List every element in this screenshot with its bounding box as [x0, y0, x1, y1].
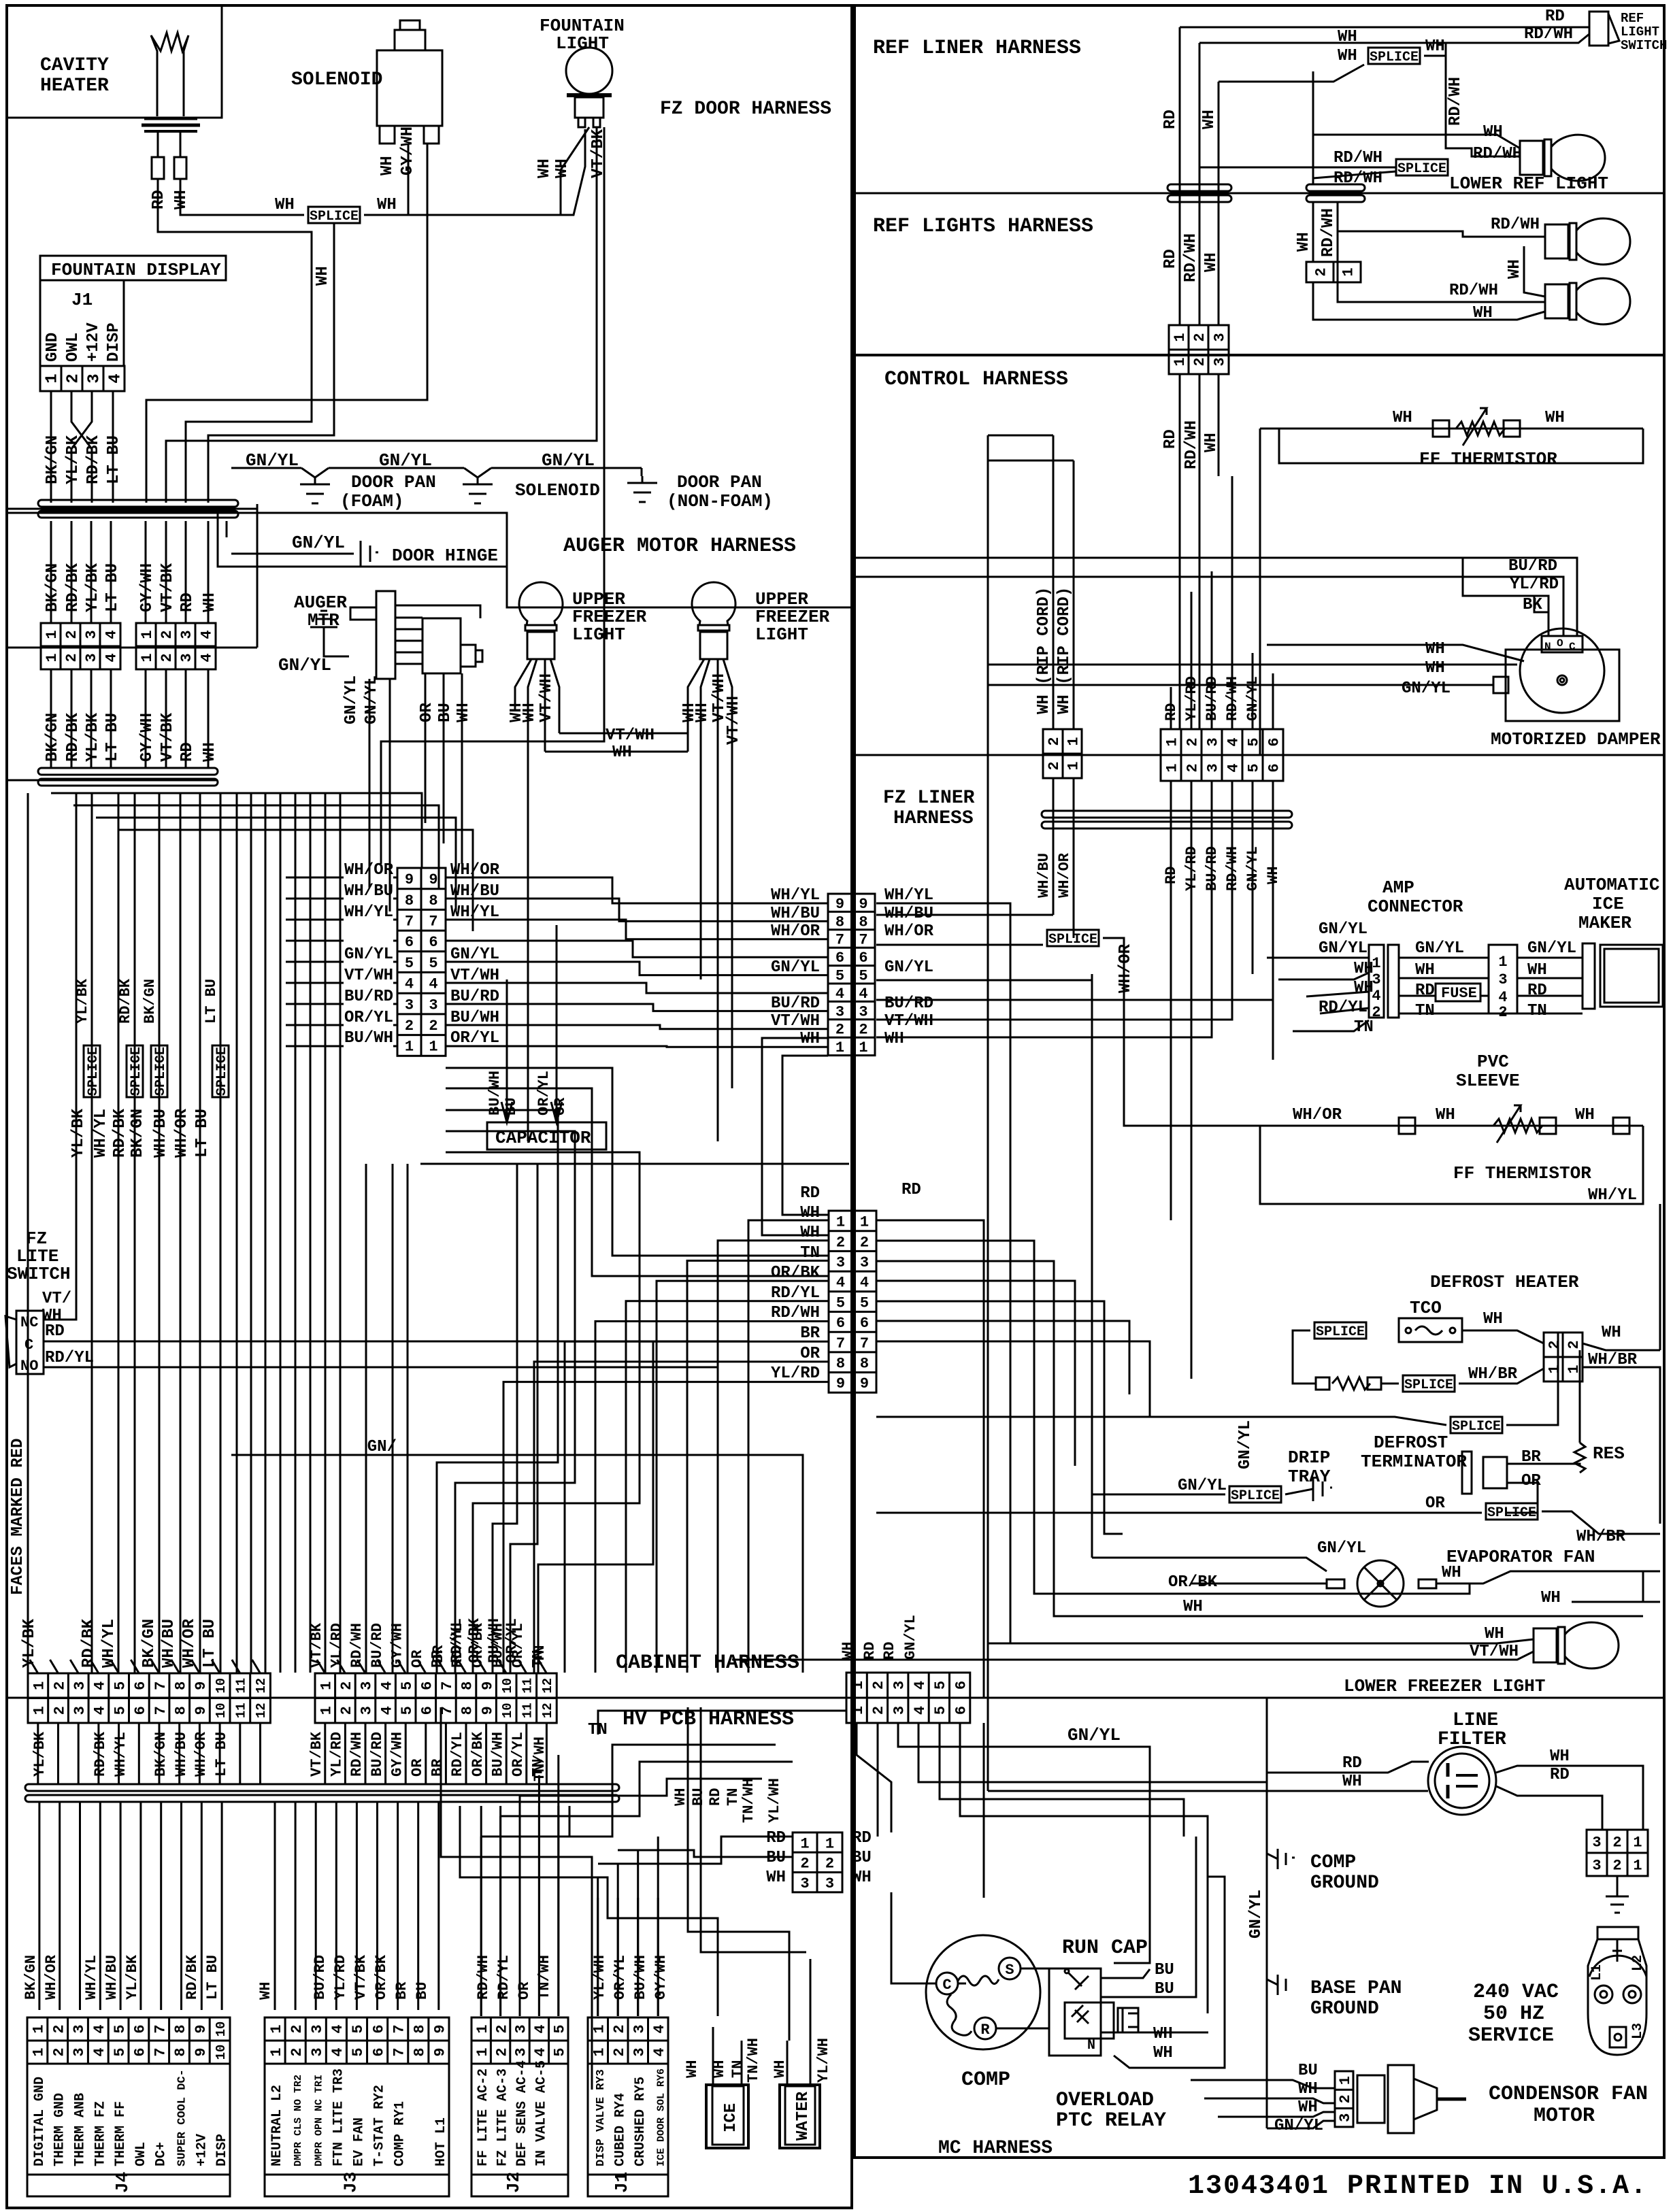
svg-text:GND: GND	[44, 333, 62, 362]
svg-text:OR: OR	[516, 1981, 533, 2000]
svg-text:BK/GN: BK/GN	[44, 563, 62, 612]
svg-text:WH: WH	[1575, 1106, 1595, 1124]
svg-text:SOLENOID: SOLENOID	[291, 69, 382, 90]
ref light bulb 1	[1545, 224, 1568, 258]
svg-text:3: 3	[631, 2024, 648, 2033]
svg-text:RD/BK: RD/BK	[80, 1618, 98, 1668]
wire row5 gnyl	[876, 979, 1092, 982]
svg-text:LIGHT: LIGHT	[1621, 24, 1659, 39]
fuse body on WH lead	[174, 157, 186, 179]
svg-text:YL/RD: YL/RD	[332, 1955, 349, 2000]
svg-text:3: 3	[178, 630, 195, 639]
svg-text:WH/OR: WH/OR	[180, 1618, 199, 1668]
svg-text:2: 2	[159, 630, 176, 639]
svg-text:4: 4	[912, 1681, 929, 1690]
svg-text:WH/YL: WH/YL	[100, 1619, 118, 1668]
wire bulb1-bulb2 WH	[1524, 246, 1545, 297]
svg-text:4: 4	[1372, 988, 1380, 1005]
damper hub	[1557, 675, 1567, 685]
svg-text:2: 2	[63, 630, 80, 639]
svg-text:3: 3	[309, 2024, 326, 2033]
svg-text:9: 9	[479, 1706, 496, 1715]
svg-text:1: 1	[1340, 267, 1357, 276]
svg-text:1: 1	[474, 2047, 491, 2056]
svg-text:2: 2	[836, 1234, 845, 1251]
fountain light socket	[575, 97, 603, 118]
svg-text:6: 6	[132, 1681, 149, 1690]
svg-text:3: 3	[891, 1681, 908, 1690]
svg-text:RD: RD	[901, 1181, 921, 1199]
svg-text:1: 1	[268, 2024, 285, 2033]
diagonal stubs into 12-pin A	[30, 1660, 38, 1673]
svg-text:L3: L3	[1630, 2023, 1646, 2039]
wire splice OR right	[1542, 1511, 1660, 1534]
CAPACITOR box	[487, 1122, 606, 1150]
svg-text:WH: WH	[884, 1030, 904, 1048]
left bus verticals 2	[365, 1164, 367, 1673]
svg-text:DISP VALVE RY3: DISP VALVE RY3	[595, 2069, 608, 2166]
svg-text:2: 2	[1498, 1004, 1507, 1021]
svg-text:J2: J2	[503, 2172, 524, 2193]
svg-text:RD: RD	[1415, 982, 1435, 1000]
svg-text:VT/WH: VT/WH	[344, 967, 393, 985]
door/cabinet line at connectors	[7, 647, 257, 649]
svg-text:8: 8	[835, 914, 844, 931]
svg-text:WH/BU: WH/BU	[160, 1619, 178, 1668]
svg-text:OR/BK: OR/BK	[1168, 1573, 1218, 1592]
svg-text:WH: WH	[1425, 659, 1445, 677]
motorized damper circle	[1520, 629, 1604, 713]
svg-text:BR: BR	[393, 1981, 410, 2000]
svg-text:5: 5	[350, 2047, 367, 2056]
MC 6-pin connector	[846, 1673, 970, 1723]
svg-text:9: 9	[835, 896, 844, 913]
svg-text:RD/WH: RD/WH	[1473, 145, 1522, 163]
svg-text:2: 2	[1046, 737, 1063, 745]
svg-text:BU/RD: BU/RD	[369, 1732, 386, 1777]
left panel long divider	[420, 1163, 849, 1165]
svg-text:RD/BK: RD/BK	[111, 1108, 129, 1158]
svg-text:FZ LINER: FZ LINER	[883, 788, 975, 809]
2|1 rip connector	[1043, 729, 1082, 778]
wire tco to conn	[1462, 1330, 1544, 1343]
run cap outer box	[1049, 1968, 1101, 2056]
svg-text:SUPER COOL DC-: SUPER COOL DC-	[176, 2069, 189, 2166]
ctrl verticals	[1179, 374, 1181, 729]
svg-text:4: 4	[651, 2024, 668, 2033]
svg-text:5: 5	[399, 1706, 416, 1715]
svg-text:SPLICE: SPLICE	[1316, 1324, 1365, 1340]
svg-text:VT/BK: VT/BK	[352, 1954, 369, 2000]
svg-text:LIGHT: LIGHT	[572, 624, 625, 645]
svg-text:2: 2	[859, 1022, 867, 1039]
svg-text:BU/WH: BU/WH	[489, 1732, 506, 1777]
line through G1	[7, 508, 257, 510]
svg-text:WH: WH	[378, 156, 397, 175]
wire lf VTWH	[732, 1652, 1534, 1660]
svg-text:5: 5	[112, 2047, 129, 2056]
wires G4 to J4	[38, 1803, 40, 2010]
svg-text:6: 6	[405, 934, 414, 951]
svg-text:2: 2	[1185, 763, 1202, 772]
svg-text:1: 1	[44, 653, 61, 662]
svg-text:LT BU: LT BU	[201, 1619, 219, 1668]
svg-text:MC HARNESS: MC HARNESS	[938, 2138, 1053, 2159]
svg-text:3: 3	[860, 1254, 869, 1271]
svg-text:1: 1	[1633, 1834, 1642, 1851]
svg-text:RD: RD	[1550, 1766, 1570, 1784]
svg-text:2: 2	[288, 2047, 305, 2056]
auger motor ground	[317, 618, 331, 620]
svg-text:8: 8	[860, 1355, 869, 1372]
amp mid wires	[1399, 957, 1489, 959]
svg-text:3: 3	[71, 2047, 88, 2056]
svg-text:3: 3	[836, 1254, 845, 1271]
svg-text:RD: RD	[1161, 249, 1180, 269]
svg-text:TN: TN	[725, 1788, 742, 1806]
svg-text:SPLICE: SPLICE	[1231, 1488, 1280, 1504]
svg-text:8: 8	[459, 1706, 476, 1715]
svg-text:1: 1	[835, 1039, 844, 1056]
svg-text:6: 6	[429, 934, 437, 951]
svg-text:RD/BK: RD/BK	[117, 978, 134, 1024]
svg-text:WH/OR: WH/OR	[173, 1108, 191, 1158]
RD/WH vertical	[1199, 43, 1201, 325]
svg-text:VT/WH: VT/WH	[537, 673, 556, 722]
svg-text:7: 7	[835, 932, 844, 949]
S terminal	[999, 1958, 1021, 1979]
left top wires to right panel	[852, 557, 891, 559]
svg-text:5: 5	[112, 2024, 129, 2033]
auger motor body	[423, 618, 461, 673]
damper pin block	[1542, 636, 1583, 652]
svg-text:REF LIGHTS HARNESS: REF LIGHTS HARNESS	[873, 215, 1093, 238]
splice defrost 2	[1403, 1375, 1455, 1392]
svg-text:J4: J4	[112, 2172, 133, 2193]
svg-text:9: 9	[432, 2024, 449, 2033]
switch body	[16, 1311, 44, 1374]
svg-text:WH: WH	[377, 196, 397, 214]
defrost terminator symbol	[1462, 1452, 1472, 1494]
svg-text:4: 4	[835, 986, 844, 1003]
svg-text:4: 4	[651, 2047, 668, 2056]
svg-text:WH/OR: WH/OR	[193, 1731, 210, 1777]
svg-text:BU: BU	[436, 703, 454, 722]
svg-text:FOUNTAIN DISPLAY: FOUNTAIN DISPLAY	[51, 260, 221, 280]
svg-text:SWITCH: SWITCH	[1621, 38, 1667, 53]
svg-text:BR: BR	[429, 1758, 446, 1777]
TCO fuse symbol	[1406, 1328, 1411, 1333]
svg-text:WH/OR: WH/OR	[1116, 943, 1135, 993]
svg-text:8: 8	[459, 1681, 476, 1690]
svg-text:3: 3	[359, 1681, 376, 1690]
svg-text:BU/WH: BU/WH	[344, 1029, 393, 1048]
svg-text:WH/OR: WH/OR	[1293, 1106, 1342, 1124]
svg-text:MOTORIZED DAMPER: MOTORIZED DAMPER	[1491, 729, 1661, 750]
svg-text:8: 8	[412, 2047, 429, 2056]
svg-text:N: N	[1087, 2038, 1095, 2054]
svg-text:TN/WH: TN/WH	[531, 1737, 548, 1781]
svg-text:SPLICE: SPLICE	[1452, 1419, 1501, 1435]
svg-text:4: 4	[1225, 763, 1242, 772]
svg-text:4: 4	[378, 1681, 395, 1690]
svg-text:1: 1	[1337, 2076, 1354, 2085]
svg-text:9: 9	[193, 2024, 210, 2033]
svg-text:6: 6	[419, 1706, 436, 1715]
heater lead WH	[180, 131, 182, 157]
light1 wires	[515, 659, 531, 707]
svg-text:4: 4	[329, 2024, 346, 2033]
svg-text:RD/WH: RD/WH	[1449, 282, 1498, 300]
svg-text:WH: WH	[711, 2060, 728, 2078]
svg-text:TN: TN	[531, 1645, 548, 1663]
svg-text:YL/BK: YL/BK	[124, 1954, 141, 2000]
svg-text:WH: WH	[1483, 1310, 1503, 1328]
svg-text:10: 10	[214, 2045, 229, 2060]
svg-text:WH: WH	[684, 2060, 701, 2078]
svg-text:WH: WH	[535, 158, 554, 178]
bottom middle staircase extras	[437, 1110, 558, 1673]
svg-text:L1: L1	[1589, 1964, 1605, 1981]
svg-text:AUTOMATIC: AUTOMATIC	[1564, 875, 1659, 895]
svg-text:SPLICE: SPLICE	[153, 1047, 169, 1096]
svg-text:3: 3	[1212, 333, 1229, 341]
FOUNTAIN DISPLAY box	[40, 256, 226, 280]
wire terminator OR	[1506, 1483, 1538, 1513]
svg-text:3: 3	[1212, 357, 1229, 366]
svg-text:PVC: PVC	[1477, 1052, 1509, 1072]
svg-text:2: 2	[50, 2024, 67, 2033]
plug bottom box	[1610, 2027, 1626, 2047]
svg-text:GY/WH: GY/WH	[652, 1955, 669, 2000]
SPLICE vertical boxes	[84, 1045, 100, 1097]
svg-text:1: 1	[31, 2047, 48, 2056]
svg-text:YL/WH: YL/WH	[591, 1955, 608, 2000]
wire to bulb1	[1338, 231, 1545, 282]
cavity heater element	[151, 33, 188, 116]
svg-text:11: 11	[520, 1678, 535, 1694]
svg-text:2: 2	[1185, 737, 1202, 746]
svg-text:DOOR PAN: DOOR PAN	[351, 472, 436, 492]
svg-text:9: 9	[836, 1375, 845, 1392]
switch wire VT/WH	[44, 793, 76, 1320]
splice box (WH)	[308, 207, 360, 223]
svg-text:LT BU: LT BU	[193, 1109, 212, 1158]
svg-text:RD: RD	[707, 1788, 724, 1806]
svg-text:GN/YL: GN/YL	[344, 945, 393, 964]
WATER box	[780, 2085, 820, 2148]
svg-text:ICE: ICE	[722, 2103, 740, 2132]
right panel divider CONTROL/FZ LINER	[855, 754, 1664, 756]
wire R to runcap	[996, 2028, 1049, 2030]
splice RD/WH mid	[1396, 159, 1448, 175]
damper wires top	[852, 558, 1577, 636]
condenser wires	[1191, 2080, 1335, 2088]
svg-text:6: 6	[132, 1706, 149, 1715]
svg-text:1: 1	[44, 373, 62, 383]
wire evap	[1191, 1583, 1327, 1585]
6pin wires up	[1170, 687, 1172, 729]
2x2 defrost connector	[1544, 1333, 1583, 1381]
svg-text:3: 3	[86, 373, 104, 383]
wire to bulb2 RD/WH	[1338, 282, 1545, 302]
auger motor knob	[461, 645, 476, 667]
svg-text:2: 2	[1191, 357, 1208, 366]
svg-text:5: 5	[399, 1681, 416, 1690]
svg-text:GN/YL: GN/YL	[363, 675, 381, 724]
svg-text:LT BU: LT BU	[203, 979, 220, 1024]
svg-text:4: 4	[329, 2047, 346, 2056]
svg-text:SPLICE: SPLICE	[86, 1047, 101, 1096]
svg-text:4: 4	[912, 1706, 929, 1715]
svg-text:RD/WH: RD/WH	[348, 1732, 365, 1777]
svg-text:GROUND: GROUND	[1310, 1998, 1379, 2020]
FZ DOOR/AUGER boundary	[7, 513, 852, 607]
svg-text:WH: WH	[1436, 1106, 1455, 1124]
svg-text:WH/OR: WH/OR	[43, 1954, 60, 2000]
svg-text:OVERLOAD: OVERLOAD	[1056, 2089, 1154, 2112]
svg-text:5: 5	[552, 2047, 569, 2056]
svg-text:WH: WH	[1342, 1773, 1362, 1791]
upper freezer light 1 bulb+socket	[519, 582, 563, 625]
svg-text:WH/BU: WH/BU	[173, 1732, 190, 1777]
svg-text:GN/YL: GN/YL	[1415, 939, 1464, 958]
svg-text:GN/YL: GN/YL	[342, 675, 361, 724]
MC wires	[857, 1723, 891, 1832]
svg-text:1: 1	[860, 1214, 869, 1231]
svg-text:6: 6	[953, 1681, 970, 1690]
svg-text:HEATER: HEATER	[40, 76, 109, 97]
svg-text:WH/YL: WH/YL	[1588, 1186, 1637, 1205]
1-2-3 connector ctrl	[1169, 325, 1229, 374]
svg-text:BU/WH: BU/WH	[632, 1955, 649, 2000]
svg-text:3: 3	[83, 653, 100, 662]
svg-text:SERVICE: SERVICE	[1468, 2024, 1554, 2047]
svg-text:2: 2	[1191, 333, 1208, 341]
svg-text:RD/BK: RD/BK	[184, 1954, 201, 2000]
svg-text:YL/BK: YL/BK	[84, 712, 102, 762]
grommet G4	[25, 1784, 619, 1791]
svg-text:T-STAT RY2: T-STAT RY2	[372, 2085, 388, 2166]
svg-text:LIGHT: LIGHT	[755, 624, 808, 645]
svg-text:IN VALVE AC-5: IN VALVE AC-5	[533, 2060, 549, 2166]
svg-text:2: 2	[65, 373, 83, 383]
svg-text:RD: RD	[1527, 982, 1547, 1000]
svg-text:EV FAN: EV FAN	[352, 2117, 367, 2166]
svg-text:REF: REF	[1621, 11, 1644, 26]
svg-text:WH/YL: WH/YL	[771, 886, 820, 905]
wires central1 bottom to central2 top	[782, 1056, 829, 1215]
svg-text:2: 2	[51, 1681, 68, 1690]
defrost left loop	[1293, 1330, 1316, 1384]
ref light bulb 2	[1545, 284, 1568, 318]
runcap wire WH2	[1114, 1877, 1225, 2068]
amp connector right	[1489, 945, 1517, 1013]
svg-text:OR/YL: OR/YL	[535, 1071, 552, 1116]
svg-text:PTC RELAY: PTC RELAY	[1056, 2109, 1166, 2132]
2|1 connector	[1306, 262, 1361, 282]
svg-text:9: 9	[405, 871, 414, 888]
svg-text:GN/YL: GN/YL	[292, 533, 345, 553]
hv pcb horizontals	[481, 1745, 776, 1837]
svg-text:6: 6	[132, 2024, 149, 2033]
svg-text:VT/WH: VT/WH	[606, 726, 655, 745]
light2 wires	[688, 659, 704, 752]
svg-text:WH: WH	[454, 703, 473, 722]
svg-text:TN: TN	[1354, 1018, 1374, 1037]
svg-text:5: 5	[429, 955, 437, 972]
svg-text:WH: WH	[1425, 640, 1445, 658]
svg-text:2: 2	[1566, 1340, 1583, 1349]
line under grommet G2	[7, 780, 218, 782]
wire conn right WHBR	[1583, 1367, 1660, 1524]
svg-text:1: 1	[1172, 357, 1189, 366]
svg-text:RD: RD	[178, 592, 197, 612]
RD vertical	[1179, 27, 1181, 325]
svg-text:BR: BR	[800, 1324, 820, 1343]
wire splice down right	[1103, 938, 1279, 1126]
svg-text:COMP: COMP	[1310, 1852, 1356, 1873]
wires G4 to J3	[274, 1803, 276, 2010]
coil C-R	[947, 1994, 972, 2035]
svg-text:NEUTRAL L2: NEUTRAL L2	[269, 2085, 285, 2166]
svg-text:WH/BU: WH/BU	[771, 905, 820, 923]
svg-text:6: 6	[835, 950, 844, 967]
svg-text:RD/BK: RD/BK	[64, 712, 82, 762]
wire WH heater	[180, 179, 304, 215]
svg-text:5: 5	[1246, 763, 1263, 772]
svg-text:2: 2	[870, 1681, 887, 1690]
left weave horizontals	[51, 793, 422, 868]
svg-text:2: 2	[338, 1681, 355, 1690]
svg-text:BK/GN: BK/GN	[152, 1732, 169, 1777]
svg-text:VT/BK: VT/BK	[159, 563, 177, 612]
svg-text:EVAPORATOR FAN: EVAPORATOR FAN	[1446, 1547, 1595, 1567]
svg-text:CAVITY: CAVITY	[40, 55, 109, 76]
svg-text:4: 4	[91, 2024, 108, 2033]
runcap wire BU2	[1101, 1837, 1196, 1997]
svg-text:9: 9	[193, 1706, 210, 1715]
svg-text:4: 4	[92, 1706, 109, 1715]
svg-text:9: 9	[429, 871, 437, 888]
svg-text:DOOR HINGE: DOOR HINGE	[392, 546, 498, 566]
svg-text:BK/GN: BK/GN	[44, 713, 62, 762]
svg-text:5: 5	[859, 968, 867, 985]
coil C-S	[958, 1976, 999, 1985]
svg-text:3: 3	[71, 1681, 88, 1690]
svg-text:OR/YL: OR/YL	[503, 1618, 520, 1663]
grommet G2	[38, 768, 218, 775]
svg-text:RD/BK: RD/BK	[92, 1731, 109, 1777]
svg-text:RD: RD	[861, 1642, 878, 1660]
wire into splice2	[1199, 167, 1396, 169]
svg-text:2: 2	[51, 1706, 68, 1715]
svg-text:2: 2	[1546, 1340, 1563, 1349]
plug terminal L1	[1595, 1985, 1612, 2003]
solenoid ground	[477, 477, 479, 484]
svg-text:GN/YL: GN/YL	[771, 958, 820, 977]
auger wires down	[369, 679, 371, 888]
svg-text:4: 4	[1225, 737, 1242, 746]
svg-text:DMPR CLS NO TR2: DMPR CLS NO TR2	[293, 2075, 304, 2166]
svg-text:9: 9	[193, 1681, 210, 1690]
GN/YL main vertical	[1266, 1698, 1268, 2128]
wire splice down	[208, 223, 334, 503]
svg-text:9: 9	[479, 1681, 496, 1690]
capacitor chevrons	[501, 1102, 512, 1122]
svg-text:2: 2	[50, 2047, 67, 2056]
svg-text:SWITCH: SWITCH	[7, 1264, 71, 1284]
